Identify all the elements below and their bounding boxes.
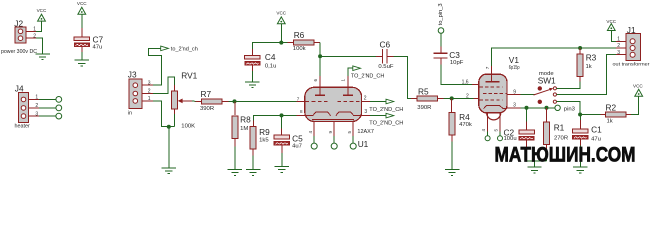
wire plate pin1 to flag [348, 68, 353, 76]
svg-text:VCC: VCC [37, 8, 47, 13]
resistor R5 390R [411, 86, 444, 111]
svg-text:heater: heater [15, 124, 30, 130]
svg-text:390R: 390R [200, 106, 214, 112]
capacitor C4 0,1u [245, 49, 277, 71]
wire J3 pin1 down [153, 101, 175, 127]
svg-text:R9: R9 [259, 127, 270, 137]
svg-text:3: 3 [364, 109, 367, 115]
svg-text:4: 4 [308, 131, 313, 134]
svg-text:1: 1 [148, 96, 151, 102]
svg-text:4u7: 4u7 [292, 143, 302, 149]
svg-text:R3: R3 [586, 52, 597, 62]
node heater 1 open end [56, 97, 62, 103]
wire heater pin1 [39, 98, 56, 100]
wire contact2 to J1 pin3 [557, 55, 617, 95]
svg-text:R6: R6 [294, 30, 305, 40]
resistor R2 1k [601, 102, 631, 124]
node pin3 open circle [555, 105, 576, 112]
pin 9 heater U1 [328, 122, 337, 150]
pin 4 heater V1 [481, 114, 490, 141]
wire J2 pin1 to VCC [36, 21, 41, 32]
svg-text:7: 7 [485, 66, 490, 69]
wire pin9 to SW1 [520, 93, 535, 95]
ground [228, 170, 242, 176]
svg-text:1k5: 1k5 [259, 138, 269, 144]
wire RV1 wiper to R7 [192, 100, 196, 103]
svg-text:5: 5 [347, 131, 352, 134]
potentiometer RV1 100K [172, 70, 198, 129]
ground [246, 170, 260, 176]
pin 2 stub V1 [466, 94, 479, 100]
svg-text:7: 7 [297, 96, 300, 101]
svg-text:in: in [128, 110, 132, 116]
svg-text:9: 9 [513, 89, 516, 95]
wire plate pin6 to node [319, 56, 321, 76]
node plate junction [318, 54, 322, 58]
J1 VCC symbol [606, 19, 616, 31]
svg-text:1,6: 1,6 [462, 79, 469, 85]
wire node to C4 [252, 43, 281, 49]
wire ground stem [534, 161, 536, 167]
wire VCC to C7 [81, 14, 83, 28]
capacitor C5 4u7 [274, 115, 303, 152]
wire pin2 to flag [370, 101, 386, 103]
svg-text:1k: 1k [607, 118, 613, 124]
svg-text:3: 3 [148, 80, 151, 86]
wire V1 plate to J1 pin2 [492, 48, 617, 66]
wire contact1 to R3 [557, 82, 581, 89]
svg-text:1: 1 [35, 95, 38, 101]
svg-text:to_2'nd_ch: to_2'nd_ch [171, 46, 198, 52]
svg-text:TO_2'ND_CH: TO_2'ND_CH [369, 121, 403, 127]
resistor R3 1k [577, 48, 597, 82]
tube V1 6p15p [479, 55, 520, 120]
node R2/C1 junction [578, 113, 582, 117]
svg-text:470k: 470k [459, 122, 472, 128]
flag to_2'nd_ch [161, 46, 198, 52]
wire C7 to ground [81, 52, 83, 60]
capacitor C2 100u [504, 108, 535, 148]
svg-text:J3: J3 [128, 70, 137, 80]
svg-text:12AX7: 12AX7 [357, 129, 374, 135]
svg-text:270R: 270R [554, 135, 568, 141]
pin 5 heater V1 [494, 114, 503, 141]
wire R5 to V1 grid node [444, 97, 452, 99]
wire grid node to tube pin7 [235, 100, 297, 102]
wire node to V1 pin2 [452, 97, 474, 99]
wire R6 to plate node [319, 43, 321, 57]
svg-text:VCC: VCC [606, 19, 616, 24]
pin 1 plate stub [341, 76, 348, 87]
wire C1 to ground [579, 146, 581, 168]
pin 5 heater U1 [347, 122, 356, 150]
resistor R4 470k [449, 98, 472, 141]
tube U1 12AX7 [305, 87, 374, 149]
svg-text:1: 1 [33, 27, 36, 33]
wire J2 pin2 to ground [36, 38, 42, 54]
svg-text:1M: 1M [240, 126, 248, 132]
node junction pot bottom [167, 125, 171, 129]
svg-text:V1: V1 [509, 55, 520, 65]
pin 9 stub V1 [507, 89, 520, 95]
wire RV1 bottom [174, 114, 176, 127]
svg-text:C1: C1 [591, 124, 602, 134]
svg-text:R7: R7 [201, 89, 212, 99]
connector J3 in [128, 70, 153, 117]
svg-text:8: 8 [300, 109, 303, 114]
svg-text:RV1: RV1 [181, 70, 197, 80]
pin 3 stub V1 [507, 103, 520, 109]
svg-text:6p15p: 6p15p [509, 65, 520, 71]
flag TO_2'ND_CH grid [369, 99, 403, 113]
node R1 junction [545, 106, 549, 110]
capacitor C7 47u [74, 28, 103, 52]
svg-text:100u: 100u [504, 136, 517, 142]
wire heater pin2 [39, 107, 56, 109]
node cathode junction [280, 113, 284, 117]
svg-text:1: 1 [341, 79, 346, 82]
wire node to R2 [580, 114, 601, 116]
svg-text:R5: R5 [418, 86, 429, 96]
pin 7 stub V1 [485, 66, 491, 74]
connector J2 [1, 19, 37, 55]
svg-text:R2: R2 [606, 102, 617, 112]
svg-text:VCC: VCC [633, 84, 643, 89]
node heater 2 open end [56, 105, 62, 111]
pin 3 stub U1 [361, 109, 370, 115]
capacitor C3 10pF [433, 47, 463, 67]
wire C5 to ground [281, 153, 283, 167]
svg-text:10pF: 10pF [450, 60, 464, 66]
wire R1 bottom [546, 153, 548, 161]
flag TO_2'ND_CH plate [351, 66, 385, 80]
svg-text:to_pin_3: to_pin_3 [438, 3, 444, 25]
pin 8 stub U1 [297, 114, 306, 116]
wire cathode node to tube pin8 [253, 115, 296, 120]
svg-text:6: 6 [313, 79, 318, 82]
svg-text:R4: R4 [459, 112, 470, 122]
R6 VCC symbol [276, 11, 286, 24]
wire plate node to C6 [320, 55, 376, 57]
wire R8 to ground [234, 147, 236, 170]
resistor R9 1k5 [250, 121, 270, 156]
svg-text:out transformer: out transformer [613, 61, 650, 66]
svg-text:390R: 390R [417, 105, 431, 111]
svg-text:U1: U1 [358, 139, 369, 149]
pin 2 stub U1 [361, 96, 370, 102]
svg-text:VCC: VCC [276, 11, 286, 16]
capacitor C6 0.5uF [376, 39, 394, 70]
svg-text:R8: R8 [240, 115, 251, 125]
wire R9 to ground [252, 156, 254, 170]
wire node to R6 [281, 42, 287, 44]
svg-text:2: 2 [617, 43, 620, 49]
resistor R1 270R [544, 108, 569, 153]
svg-text:3: 3 [513, 103, 516, 109]
wire C3 to V1 pin 1,6 [441, 65, 472, 85]
capacitor C1 47u [573, 115, 603, 146]
wire pin3 to flag [370, 115, 386, 117]
ground [245, 82, 259, 88]
svg-text:SW1: SW1 [538, 76, 556, 86]
svg-text:3: 3 [617, 50, 620, 56]
wire C4 to ground [251, 71, 253, 82]
svg-text:1k: 1k [586, 64, 592, 70]
ground [35, 54, 49, 60]
svg-text:2: 2 [33, 34, 36, 40]
connector J1 out transformer [613, 25, 650, 66]
pin 7 stub U1 [297, 100, 306, 102]
wire R4 to ground [451, 141, 453, 169]
svg-text:TO_2'ND_CH: TO_2'ND_CH [369, 107, 403, 113]
svg-text:9: 9 [328, 131, 333, 134]
wire R7 to grid node [229, 100, 235, 102]
svg-text:3: 3 [35, 111, 38, 117]
svg-text:2: 2 [466, 94, 469, 100]
resistor R8 1M [232, 101, 251, 146]
R2 VCC symbol [633, 84, 643, 97]
connector J4 heater [15, 83, 39, 129]
node heater 3 open end [56, 113, 62, 119]
node V1 grid junction [450, 96, 454, 100]
svg-text:47u: 47u [591, 136, 601, 142]
wire junction to ground [168, 127, 170, 168]
pin 4 heater U1 [308, 122, 317, 150]
ground [162, 168, 176, 174]
ground [527, 167, 541, 173]
ground [445, 170, 459, 176]
wire J3 pin3 to flag [149, 48, 162, 85]
ground [573, 167, 587, 173]
wire C2 bottom to R1 bottom [527, 148, 547, 162]
wire contact3 to R2 node [557, 102, 581, 115]
svg-text:C7: C7 [93, 34, 104, 44]
svg-text:power 300v DC: power 300v DC [1, 49, 37, 55]
svg-text:5: 5 [494, 129, 499, 132]
svg-text:МАТЮШИН.СОМ: МАТЮШИН.СОМ [495, 143, 636, 167]
svg-text:47u: 47u [93, 45, 103, 51]
svg-text:4: 4 [481, 129, 486, 132]
svg-text:2: 2 [364, 96, 367, 102]
ground [275, 167, 289, 173]
svg-text:1: 1 [617, 37, 620, 43]
node R3 top junction [578, 46, 582, 50]
wire J3 pin2 to RV1 top [153, 77, 175, 93]
switch SW1 mode [534, 71, 557, 104]
wire cathode pin3 to pin3 node [520, 107, 555, 109]
wire C6 to R5 [394, 56, 411, 98]
C7 VCC symbol [77, 1, 87, 14]
svg-text:C5: C5 [292, 134, 303, 144]
svg-text:2: 2 [35, 103, 38, 109]
svg-text:100K: 100K [181, 123, 195, 129]
resistor R7 390R [196, 89, 229, 112]
wire R2 to VCC [631, 96, 639, 115]
wire VCC to R6 node [280, 23, 282, 42]
svg-text:VCC: VCC [77, 1, 87, 6]
svg-text:R1: R1 [554, 123, 565, 133]
label to_pin_3 [438, 3, 444, 33]
wire VCC to J1 pin1 [611, 30, 616, 41]
wire to_pin_3 to C3 [440, 33, 442, 46]
svg-text:J4: J4 [15, 83, 24, 93]
svg-text:100k: 100k [293, 46, 306, 52]
svg-text:TO_2'ND_CH: TO_2'ND_CH [351, 73, 385, 79]
wire heater pin3 [39, 115, 56, 117]
power VCC symbol [37, 8, 47, 21]
svg-text:C4: C4 [265, 52, 276, 62]
svg-text:0,1u: 0,1u [265, 63, 276, 69]
svg-text:pin3: pin3 [564, 106, 576, 112]
resistor R6 100k [288, 30, 321, 52]
node C2 junction [525, 106, 529, 110]
flag TO_2'ND_CH cathode [369, 113, 403, 126]
node R6/C4 junction [279, 41, 283, 45]
ground [75, 60, 89, 66]
svg-text:C3: C3 [449, 50, 460, 60]
svg-text:2: 2 [148, 89, 151, 95]
node grid junction [233, 99, 237, 103]
pin 1,6 stub V1 [462, 79, 479, 85]
pin 6 plate stub [313, 76, 320, 87]
svg-text:0.5uF: 0.5uF [378, 64, 393, 70]
svg-text:C6: C6 [380, 39, 391, 49]
